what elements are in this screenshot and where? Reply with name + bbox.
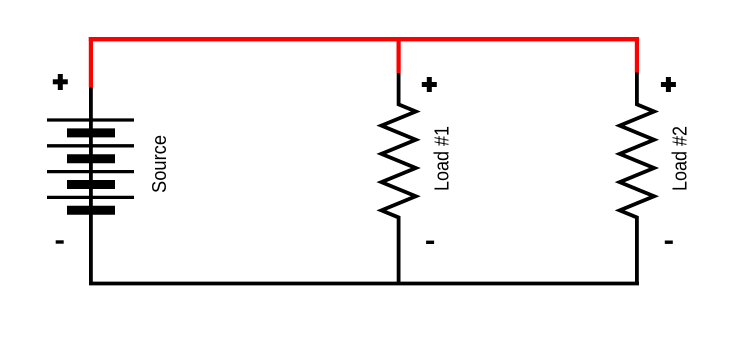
svg-text:Source: Source	[149, 135, 171, 193]
battery BAT1 plate: cell 1 long positive plate	[47, 118, 134, 121]
battery BAT1 plate: cell 1 short negative plate	[67, 128, 115, 137]
battery BAT1 plate: cell 2 long positive plate	[47, 144, 134, 147]
battery BAT1 plate: cell 3 long positive plate	[47, 170, 134, 173]
wire: top positive bus (red)	[89, 37, 639, 41]
label: Load #2 positive terminal plus sign	[661, 77, 676, 92]
wire: bottom negative bus (black)	[89, 282, 639, 286]
wire: battery center conductor (top lead black segment through cells to bottom bus)	[89, 87, 93, 283]
svg-text:Load #2: Load #2	[669, 126, 691, 191]
resistor Load #1: top black lead, zigzag body, bottom lead	[381, 73, 415, 284]
battery BAT1 plate: cell 4 short negative plate	[67, 206, 115, 215]
label: battery negative terminal minus sign	[56, 240, 64, 243]
svg-text:Load #1: Load #1	[432, 126, 454, 191]
battery BAT1 plate: cell 4 long positive plate	[47, 196, 134, 199]
wire: Load #2 top lead, red segment	[635, 37, 639, 73]
label: Load #1 negative terminal minus sign	[426, 241, 434, 244]
resistor Load #2: top black lead, zigzag body, bottom lead	[620, 73, 654, 284]
wire: Load #1 top lead, red segment	[397, 37, 401, 73]
battery BAT1 plate: cell 3 short negative plate	[67, 180, 115, 189]
label: battery positive terminal plus sign	[53, 74, 68, 90]
battery BAT1 plate: cell 2 short negative plate	[67, 154, 115, 163]
label: Load #1 positive terminal plus sign	[422, 77, 437, 92]
wire: battery positive lead, red segment	[89, 37, 93, 87]
label: Load #2 negative terminal minus sign	[665, 241, 673, 244]
